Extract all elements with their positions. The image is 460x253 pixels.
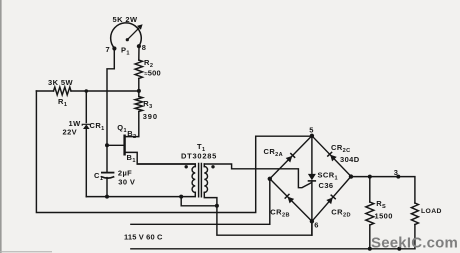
junction dot RS top (368, 175, 372, 179)
wire lower AC line / bottom return (131, 248, 415, 250)
terminal dot 3 (396, 175, 400, 179)
bridge right corner dot (349, 174, 353, 178)
zener diode CR1 wire (85, 91, 87, 197)
junction dot C1 bottom (105, 195, 109, 199)
resistor R3 (135, 97, 142, 112)
transistor Q1 emitter wire (107, 144, 123, 146)
potentiometer arrow head (137, 24, 143, 30)
scan border artifact left edge (0, 0, 2, 253)
transistor Q1 bar (123, 135, 125, 156)
node 6 dot (310, 219, 314, 223)
junction dot R2/R3 node (137, 89, 141, 93)
potentiometer P1 wiper arrow (127, 27, 139, 39)
transistor Q1 B1 lead (126, 152, 196, 164)
svg-text:2µF: 2µF (118, 169, 132, 178)
P1 center dot (126, 38, 129, 41)
svg-text:304D: 304D (340, 155, 360, 164)
SCR1 symbol (308, 174, 316, 180)
transformer T1 secondary coil (204, 164, 312, 235)
svg-text:SeekIC.com: SeekIC.com (371, 235, 458, 252)
junction dot CR1 top (85, 89, 89, 93)
svg-text:8: 8 (142, 43, 147, 52)
svg-text:390: 390 (143, 112, 158, 121)
wire right corner to load branch (351, 177, 415, 249)
phasing dot secondary (211, 165, 214, 168)
svg-text:22V: 22V (63, 128, 78, 137)
svg-text:3K 5W: 3K 5W (48, 78, 73, 87)
junction dot rail/primary (179, 195, 183, 199)
bridge arm CR2D (312, 176, 351, 221)
scan artifact bottom-left (0, 251, 52, 252)
SCR1 vertical wire (311, 136, 313, 235)
bridge arm CR2C (312, 136, 351, 177)
resistor R1 (54, 87, 72, 95)
wire upper AC line to bridge left corner (131, 179, 270, 225)
junction dot return terminal (397, 247, 401, 251)
transformer T1 core (199, 164, 202, 197)
svg-text:3: 3 (394, 168, 399, 177)
svg-text:5K 2W: 5K 2W (113, 15, 138, 24)
bridge arm CR2A (270, 136, 312, 179)
junction dot RS bottom (368, 247, 372, 251)
wire R2 branch (138, 47, 140, 92)
diode CR2C symbol (327, 152, 337, 162)
bridge left corner dot (268, 177, 272, 181)
transformer T1 primary coil (137, 164, 195, 197)
wire left rail supply loop (36, 91, 312, 213)
potentiometer P1 circle (111, 23, 142, 49)
capacitor C1 (102, 172, 114, 174)
wire secondary top to SCR gate (204, 164, 311, 188)
wire R3 branch (126, 91, 139, 137)
junction dot secondary bottom (215, 204, 219, 208)
svg-text:1500: 1500 (375, 212, 393, 221)
node 5 dot (310, 134, 314, 138)
junction dot emitter/C1 (105, 143, 109, 147)
svg-text:DT30285: DT30285 (181, 152, 217, 161)
svg-text:115 V 60 C: 115 V 60 C (124, 232, 163, 241)
diode CR2A symbol (286, 153, 296, 163)
diode CR2D symbol (326, 195, 336, 205)
bridge arm CR2B (270, 179, 312, 222)
svg-text:7: 7 (106, 45, 111, 54)
svg-text:C36: C36 (319, 181, 334, 190)
svg-text:LOAD: LOAD (421, 208, 442, 215)
zener CR1 symbol (83, 124, 90, 129)
resistor R2 (135, 60, 142, 79)
terminal dot 7 (112, 46, 116, 50)
wire node A horizontal (36, 90, 138, 92)
phasing dot primary (185, 165, 188, 168)
resistor LOAD (411, 203, 418, 225)
diode CR2B symbol (285, 194, 295, 204)
resistor RS branch (369, 177, 371, 249)
wire terminal7 to emitter/C1 (107, 49, 114, 197)
svg-text:5: 5 (309, 126, 314, 135)
svg-text:6: 6 (314, 221, 319, 230)
svg-text:30 V: 30 V (118, 178, 135, 187)
terminal dot 8 (137, 44, 141, 48)
wire bottom rail of oscillator (86, 197, 217, 206)
